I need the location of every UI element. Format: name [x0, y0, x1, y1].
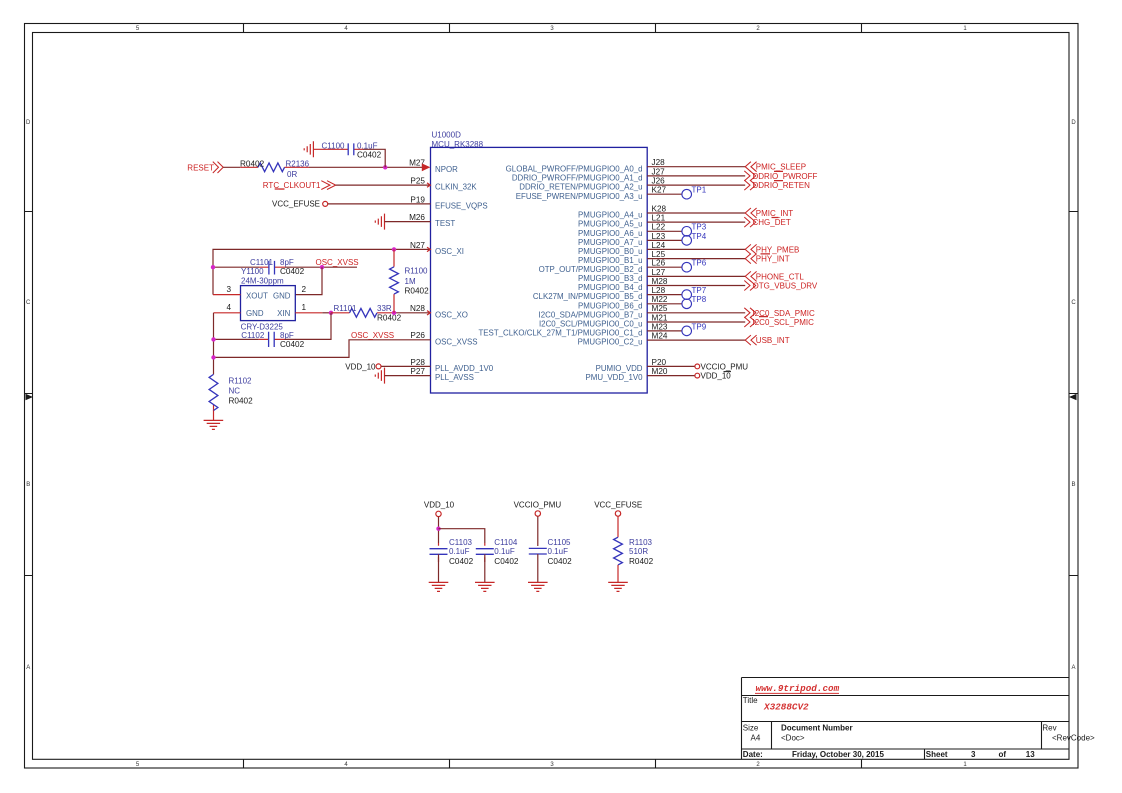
- resistor R1100 1M: [393, 249, 395, 312]
- svg-text:2: 2: [302, 285, 307, 294]
- wire TEST to ground: [385, 221, 431, 223]
- ground for PLL_AVSS: [375, 368, 384, 384]
- wire to TP1: [647, 193, 682, 195]
- svg-text:C1100: C1100: [322, 141, 346, 150]
- port PMIC_INT: [745, 208, 756, 218]
- wire PMIC_INT: [647, 212, 745, 214]
- wire PHY_INT: [647, 258, 745, 260]
- port PMIC_SLEEP: [745, 162, 756, 172]
- wire USB_INT: [647, 339, 745, 341]
- svg-text:MCU_RK3288: MCU_RK3288: [432, 140, 484, 149]
- svg-text:PMUGPIO0_B3_d: PMUGPIO0_B3_d: [578, 274, 642, 283]
- port USB_INT: [745, 335, 756, 345]
- svg-text:DDRIO_RETEN: DDRIO_RETEN: [753, 181, 811, 190]
- test point TP8: [682, 299, 692, 309]
- node OSC_XO / R1100 junction: [392, 311, 396, 315]
- svg-text:PMUGPIO0_B6_d: PMUGPIO0_B6_d: [578, 301, 642, 310]
- wire OSC_XI net: [213, 249, 431, 294]
- ground below C1105: [528, 582, 548, 591]
- svg-text:3: 3: [971, 750, 976, 759]
- wire OSC_XVSS net: [214, 340, 431, 358]
- svg-text:0R: 0R: [287, 170, 297, 179]
- svg-text:Date:: Date:: [743, 750, 763, 759]
- svg-text:PMUGPIO0_A7_u: PMUGPIO0_A7_u: [578, 238, 642, 247]
- wire I2C0_SDA_PMIC: [647, 312, 745, 314]
- port DDRIO_RETEN: [744, 180, 755, 190]
- OSC_XO pin chevron: [427, 311, 430, 315]
- svg-text:C1102: C1102: [241, 331, 265, 340]
- svg-text:CLK27M_IN/PMUGPIO0_B5_d: CLK27M_IN/PMUGPIO0_B5_d: [533, 292, 643, 301]
- ground below R1103: [608, 582, 628, 591]
- port I2C0_SDA_PMIC: [744, 308, 755, 318]
- svg-text:GND: GND: [246, 309, 264, 318]
- svg-text:TP8: TP8: [692, 295, 707, 304]
- svg-text:13: 13: [1026, 750, 1035, 759]
- svg-text:P27: P27: [410, 367, 425, 376]
- svg-text:TEST: TEST: [435, 219, 455, 228]
- node OSC_XVSS junction: [211, 355, 215, 359]
- svg-text:M26: M26: [409, 213, 425, 222]
- border ticks top: [244, 24, 862, 33]
- svg-text:C0402: C0402: [494, 557, 519, 566]
- resistor R1102 NC: [213, 405, 215, 411]
- op-amp U1000D MCU_RK3288 body: [431, 147, 648, 393]
- svg-text:DDRIO_PWROFF: DDRIO_PWROFF: [753, 172, 818, 181]
- svg-text:K27: K27: [652, 186, 667, 195]
- wire PMIC_SLEEP: [647, 166, 745, 168]
- border fold arrow left: [26, 394, 34, 400]
- svg-text:L23: L23: [652, 232, 666, 241]
- svg-text:Document Number: Document Number: [781, 724, 853, 733]
- svg-text:510R: 510R: [629, 547, 648, 556]
- svg-text:TP6: TP6: [692, 259, 707, 268]
- svg-text:U1000D: U1000D: [432, 131, 462, 140]
- svg-text:PLL_AVSS: PLL_AVSS: [435, 373, 474, 382]
- NPOR pin arrow: [422, 163, 431, 171]
- wire VCC_EFUSE to EFUSE_VQPS: [328, 203, 431, 205]
- svg-text:J28: J28: [652, 158, 666, 167]
- svg-text:USB_INT: USB_INT: [756, 336, 790, 345]
- ground below C1103: [429, 582, 449, 591]
- svg-text:OTP_OUT/PMUGPIO0_B2_d: OTP_OUT/PMUGPIO0_B2_d: [539, 265, 643, 274]
- svg-text:www.9tripod.com: www.9tripod.com: [756, 683, 840, 694]
- svg-text:A: A: [1071, 665, 1075, 671]
- wire VDD_10 to PLL_AVDD_1V0: [381, 365, 430, 367]
- border ticks bottom: [244, 759, 862, 768]
- svg-text:C0402: C0402: [548, 557, 573, 566]
- ground below C1104: [475, 582, 495, 591]
- svg-text:X3288CV2: X3288CV2: [763, 701, 809, 712]
- svg-text:VDD_10: VDD_10: [701, 372, 732, 381]
- svg-text:Sheet: Sheet: [926, 750, 948, 759]
- svg-text:VCCIO_PMU: VCCIO_PMU: [701, 362, 749, 371]
- port I2C0_SCL_PMIC: [744, 317, 755, 327]
- capacitor C1103 0.1uF: [439, 543, 485, 562]
- wire VCCIO_PMU: [647, 365, 695, 367]
- svg-text:Y1100: Y1100: [241, 267, 264, 276]
- svg-text:OSC_XVSS: OSC_XVSS: [351, 331, 394, 340]
- wire C1101 to OSC_XVSS stub: [285, 266, 357, 268]
- wire VCC_EFUSE down: [617, 516, 619, 537]
- wire CHG_DET: [647, 221, 745, 223]
- svg-text:R1103: R1103: [629, 538, 653, 547]
- svg-text:OSC_XO: OSC_XO: [435, 310, 468, 319]
- port PHY_INT: [745, 254, 756, 264]
- svg-text:J26: J26: [652, 177, 666, 186]
- svg-text:24M-30ppm: 24M-30ppm: [241, 276, 284, 285]
- svg-text:Friday, October 30, 2015: Friday, October 30, 2015: [792, 750, 884, 759]
- svg-text:EFUSE_VQPS: EFUSE_VQPS: [435, 201, 488, 210]
- svg-text:R1101: R1101: [334, 304, 358, 313]
- test point TP3: [682, 227, 692, 237]
- svg-text:R2136: R2136: [286, 159, 310, 168]
- svg-text:<Doc>: <Doc>: [781, 734, 805, 743]
- wire PHY_PMEB: [647, 248, 745, 250]
- svg-text:PHY_INT: PHY_INT: [756, 255, 790, 264]
- wire R1101 to OSC_XO: [394, 312, 431, 314]
- svg-text:TP9: TP9: [692, 322, 707, 331]
- wire C1103 to ground: [438, 554, 440, 582]
- svg-text:L28: L28: [652, 286, 666, 295]
- svg-text:4: 4: [226, 303, 231, 312]
- svg-text:PLL_AVDD_1V0: PLL_AVDD_1V0: [435, 364, 494, 373]
- svg-text:DDRIO_RETEN/PMUGPIO0_A2_u: DDRIO_RETEN/PMUGPIO0_A2_u: [519, 183, 642, 192]
- resistor R1103 510R: [614, 537, 623, 565]
- wire R2136 to NPOR pin: [309, 166, 424, 168]
- svg-text:Rev: Rev: [1042, 724, 1056, 733]
- svg-text:C: C: [1071, 300, 1076, 306]
- power symbol VCCIO_PMU: [695, 364, 700, 369]
- svg-text:N27: N27: [410, 241, 425, 250]
- svg-text:PUMIO_VDD: PUMIO_VDD: [596, 364, 643, 373]
- wire OTG_VBUS_DRV: [647, 285, 745, 287]
- wire C1105 to ground: [537, 554, 539, 582]
- capacitor C1105 0.1uF: [529, 548, 547, 554]
- power symbol VDD_10: [695, 373, 700, 378]
- svg-text:PMU_VDD_1V0: PMU_VDD_1V0: [585, 373, 643, 382]
- svg-text:DDRIO_PWROFF/PMUGPIO0_A1_d: DDRIO_PWROFF/PMUGPIO0_A1_d: [512, 174, 643, 183]
- wire R1102 to ground: [213, 411, 215, 421]
- wire to TP8: [647, 303, 682, 305]
- svg-text:M24: M24: [652, 332, 668, 341]
- test point TP9: [682, 326, 692, 336]
- svg-text:PMUGPIO0_C2_u: PMUGPIO0_C2_u: [578, 338, 643, 347]
- wire R1103 to ground: [617, 565, 619, 583]
- wire to TP3: [647, 230, 682, 232]
- VDD_10 overbar: [724, 371, 732, 373]
- svg-text:0.1uF: 0.1uF: [548, 547, 569, 556]
- svg-text:C0402: C0402: [280, 340, 305, 349]
- svg-text:A: A: [26, 665, 30, 671]
- svg-text:1: 1: [302, 303, 307, 312]
- wire PHONE_CTL: [647, 275, 745, 277]
- capacitor C1101 8pF: [213, 266, 259, 268]
- wire DDRIO_PWROFF: [647, 175, 745, 177]
- svg-text:I2C0_SDA/PMUGPIO0_B7_u: I2C0_SDA/PMUGPIO0_B7_u: [539, 310, 643, 319]
- svg-text:I2C0_SCL_PMIC: I2C0_SCL_PMIC: [753, 318, 815, 327]
- svg-text:L27: L27: [652, 268, 666, 277]
- node C1101 left junction: [211, 265, 215, 269]
- border ticks left: [25, 212, 33, 576]
- svg-text:B: B: [1071, 482, 1075, 488]
- svg-text:TP1: TP1: [692, 186, 707, 195]
- svg-text:PMUGPIO0_B0_u: PMUGPIO0_B0_u: [578, 247, 642, 256]
- test point TP6: [682, 262, 692, 272]
- svg-text:R0402: R0402: [405, 287, 430, 296]
- node OSC_XI / R1100 junction: [392, 247, 396, 251]
- svg-text:PHY_PMEB: PHY_PMEB: [756, 245, 800, 254]
- wire to TP4: [647, 239, 682, 241]
- node C1101 right junction: [320, 265, 324, 269]
- svg-text:K28: K28: [652, 204, 667, 213]
- svg-text:C1104: C1104: [494, 538, 518, 547]
- wire to TP7: [647, 294, 682, 296]
- svg-text:M25: M25: [652, 304, 668, 313]
- svg-text:P19: P19: [410, 195, 425, 204]
- svg-text:P28: P28: [410, 358, 425, 367]
- svg-text:1M: 1M: [405, 277, 416, 286]
- svg-text:Title: Title: [743, 696, 758, 705]
- svg-text:R0402: R0402: [377, 313, 402, 322]
- svg-text:0.1uF: 0.1uF: [494, 547, 515, 556]
- capacitor C1100 0.1uF: [313, 148, 363, 150]
- test point TP7: [682, 290, 692, 300]
- test point TP1: [682, 189, 692, 199]
- svg-text:M23: M23: [652, 322, 668, 331]
- svg-text:M20: M20: [652, 367, 668, 376]
- port PHY_PMEB: [745, 244, 756, 254]
- svg-text:XOUT: XOUT: [246, 291, 268, 300]
- wire I2C0_SCL_PMIC: [647, 321, 745, 323]
- wire to TP6: [647, 266, 682, 268]
- svg-text:33R: 33R: [377, 304, 392, 313]
- svg-text:P25: P25: [410, 177, 425, 186]
- svg-text:PMIC_INT: PMIC_INT: [756, 209, 793, 218]
- svg-text:8pF: 8pF: [280, 258, 294, 267]
- svg-text:J27: J27: [652, 167, 666, 176]
- node NPOR junction: [383, 165, 387, 169]
- svg-text:OSC_XI: OSC_XI: [435, 247, 464, 256]
- wire crystal left GND vertical: [213, 313, 215, 375]
- svg-text:TP4: TP4: [692, 232, 707, 241]
- svg-text:of: of: [999, 750, 1007, 759]
- wire junction down to crystal pin 2: [295, 267, 322, 294]
- svg-text:D: D: [1071, 120, 1076, 126]
- ground for TEST: [375, 214, 384, 230]
- resistor R1101 33R: [331, 312, 394, 314]
- wire C1102 right to XIN net: [285, 313, 332, 340]
- svg-text:NC: NC: [229, 386, 241, 395]
- svg-text:C1105: C1105: [548, 538, 572, 547]
- svg-text:CLKIN_32K: CLKIN_32K: [435, 183, 477, 192]
- svg-text:C0402: C0402: [449, 557, 474, 566]
- wire RTC_CLKOUT1 to CLKIN_32K: [336, 184, 431, 186]
- wire VCCIO_PMU down: [537, 516, 539, 546]
- svg-text:P26: P26: [410, 331, 425, 340]
- svg-text:M22: M22: [652, 295, 668, 304]
- wire C1104 to ground: [484, 554, 486, 582]
- svg-text:CRY-D3225: CRY-D3225: [241, 322, 284, 331]
- svg-text:D: D: [26, 120, 31, 126]
- capacitor C1102 8pF: [214, 338, 259, 340]
- border ticks right: [1069, 212, 1078, 576]
- svg-text:3: 3: [226, 285, 231, 294]
- svg-text:PMUGPIO0_A6_u: PMUGPIO0_A6_u: [578, 229, 642, 238]
- node VDD_10 branch: [436, 527, 440, 531]
- svg-text:PMUGPIO0_A5_u: PMUGPIO0_A5_u: [578, 220, 642, 229]
- svg-text:GLOBAL_PWROFF/PMUGPIO0_A0_d: GLOBAL_PWROFF/PMUGPIO0_A0_d: [506, 164, 643, 173]
- port CHG_DET: [744, 217, 755, 227]
- OSC_XI pin chevron: [427, 247, 430, 251]
- svg-text:I2C0_SCL/PMUGPIO0_C0_u: I2C0_SCL/PMUGPIO0_C0_u: [539, 320, 643, 329]
- svg-text:R0402: R0402: [629, 557, 654, 566]
- wire ground to PLL_AVSS: [385, 375, 431, 377]
- svg-text:TEST_CLKO/CLK_27M_T1/PMUGPIO0_: TEST_CLKO/CLK_27M_T1/PMUGPIO0_C1_d: [478, 329, 642, 338]
- svg-text:A4: A4: [751, 734, 761, 743]
- svg-text:C0402: C0402: [357, 151, 382, 160]
- wire VDD_10: [647, 375, 695, 377]
- crystal Y1100 CRY-D3225 body: [241, 286, 296, 321]
- svg-text:TP3: TP3: [692, 223, 707, 232]
- svg-text:TP7: TP7: [692, 286, 707, 295]
- svg-text:M28: M28: [652, 277, 668, 286]
- svg-text:N28: N28: [410, 304, 425, 313]
- port PHONE_CTL: [745, 271, 756, 281]
- node XIN junction: [329, 311, 333, 315]
- wire C1100 to NPOR net: [363, 149, 385, 167]
- wire branch to C1104: [439, 529, 485, 543]
- port DDRIO_PWROFF: [744, 171, 755, 181]
- net active-low overbars: [275, 171, 783, 316]
- ground for C1100: [304, 141, 313, 157]
- wire VDD_10 down: [438, 517, 440, 543]
- svg-text:VCC_EFUSE: VCC_EFUSE: [272, 200, 320, 209]
- wire RESET to R2136: [223, 166, 240, 168]
- test point TP4: [682, 236, 692, 246]
- resistor R2136 0R: [240, 166, 309, 168]
- svg-text:L21: L21: [652, 214, 666, 223]
- svg-text:NPOR: NPOR: [435, 165, 458, 174]
- svg-text:C1103: C1103: [449, 538, 473, 547]
- svg-text:XIN: XIN: [277, 309, 290, 318]
- svg-text:VCC_EFUSE: VCC_EFUSE: [594, 501, 642, 510]
- svg-text:VDD_10: VDD_10: [345, 362, 376, 371]
- svg-text:M21: M21: [652, 313, 668, 322]
- wire DDRIO_RETEN: [647, 184, 745, 186]
- svg-text:PHONE_CTL: PHONE_CTL: [756, 272, 805, 281]
- svg-text:C1101: C1101: [250, 258, 274, 267]
- svg-text:RESET: RESET: [187, 163, 214, 172]
- svg-text:Size: Size: [743, 724, 759, 733]
- svg-text:C0402: C0402: [280, 267, 305, 276]
- svg-text:VDD_10: VDD_10: [424, 501, 455, 510]
- svg-text:C: C: [26, 300, 31, 306]
- capacitor C1104 0.1uF: [476, 549, 494, 555]
- svg-text:PMUGPIO0_B4_d: PMUGPIO0_B4_d: [578, 283, 642, 292]
- svg-text:L22: L22: [652, 223, 666, 232]
- wire crystal pin1 to R1101: [322, 312, 331, 314]
- svg-text:R1100: R1100: [405, 267, 429, 276]
- border fold arrow right: [1069, 394, 1077, 400]
- svg-text:L24: L24: [652, 241, 666, 250]
- title block frame: [742, 678, 1070, 760]
- svg-text:EFUSE_PWREN/PMUGPIO0_A3_u: EFUSE_PWREN/PMUGPIO0_A3_u: [516, 192, 643, 201]
- svg-text:R0402: R0402: [240, 159, 265, 168]
- svg-text:GND: GND: [273, 291, 291, 300]
- wire to TP9: [647, 330, 682, 332]
- svg-text:OSC_XVSS: OSC_XVSS: [316, 258, 359, 267]
- svg-text:OSC_XVSS: OSC_XVSS: [435, 337, 478, 346]
- svg-text:VCCIO_PMU: VCCIO_PMU: [514, 501, 562, 510]
- port OTG_VBUS_DRV: [744, 281, 755, 291]
- svg-text:L26: L26: [652, 259, 666, 268]
- svg-text:<RevCode>: <RevCode>: [1052, 734, 1095, 743]
- svg-text:B: B: [26, 482, 30, 488]
- svg-text:OTG_VBUS_DRV: OTG_VBUS_DRV: [753, 282, 818, 291]
- svg-text:0.1uF: 0.1uF: [449, 547, 470, 556]
- svg-text:CHG_DET: CHG_DET: [753, 218, 791, 227]
- svg-text:R0402: R0402: [229, 397, 254, 406]
- node C1102 left junction: [211, 337, 215, 341]
- ground below R1102: [204, 420, 224, 429]
- svg-text:PMIC_SLEEP: PMIC_SLEEP: [756, 163, 806, 172]
- svg-text:P20: P20: [652, 358, 667, 367]
- CLKIN_32K pin chevron: [427, 183, 430, 187]
- svg-text:RTC_CLKOUT1: RTC_CLKOUT1: [263, 181, 321, 190]
- svg-text:PMUGPIO0_A4_u: PMUGPIO0_A4_u: [578, 211, 642, 220]
- svg-text:R1102: R1102: [229, 376, 253, 385]
